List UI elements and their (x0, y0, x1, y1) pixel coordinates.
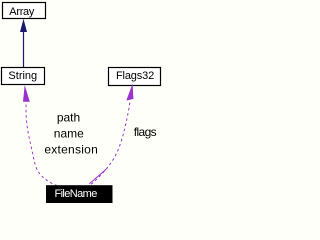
usage arrowhead FileName to String (23, 85, 30, 102)
svg-text:flags: flags (134, 125, 157, 139)
svg-text:extension: extension (44, 143, 98, 157)
node String (2, 68, 45, 85)
svg-text:path: path (57, 110, 80, 124)
svg-text:Array: Array (9, 6, 35, 18)
inheritance arrow String to Array (20, 19, 27, 68)
node Flags32 (109, 68, 161, 86)
wire dashed usage edge FileName to String (26, 102, 57, 186)
wire dashed usage edge FileName to Flags32 (90, 100, 130, 185)
svg-text:name: name (54, 127, 84, 141)
node Array (3, 3, 46, 19)
svg-text:FileName: FileName (54, 188, 97, 200)
wire solid lower segment of flags edge (89, 169, 106, 184)
svg-text:Flags32: Flags32 (116, 70, 154, 82)
usage arrowhead FileName to Flags32 (126, 84, 133, 101)
svg-text:String: String (8, 70, 37, 82)
node FileName (current) (46, 185, 113, 203)
